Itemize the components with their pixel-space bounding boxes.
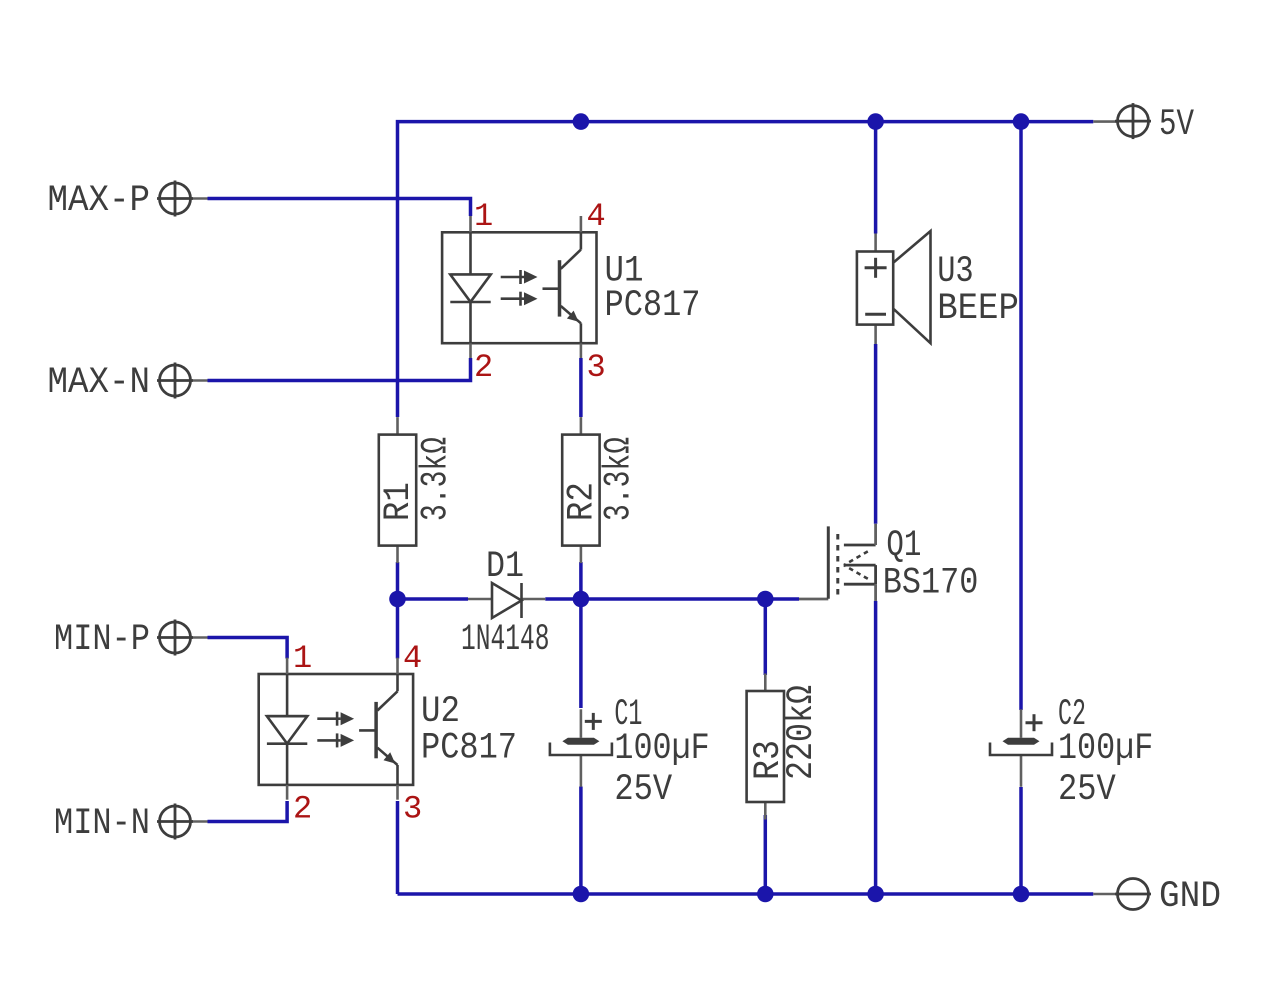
optocoupler U1 PC817 (442, 216, 596, 358)
svg-text:3: 3 (587, 349, 606, 386)
resistor R3 (747, 674, 784, 820)
svg-text:R2: R2 (561, 482, 603, 521)
junction node A right (757, 591, 774, 608)
wire MIN-P to U2 pin1 (208, 638, 288, 659)
junction node A left (389, 591, 406, 608)
svg-text:25V: 25V (614, 769, 672, 811)
port MAX-P (48, 180, 208, 222)
wire 5V top rail with left drop (398, 122, 1094, 417)
wire R1 bottom to node (396, 562, 400, 599)
wire C1 bottom to GND rail (579, 787, 583, 895)
junction GND rail at R3 column (757, 886, 774, 903)
svg-text:4: 4 (587, 198, 606, 235)
wire R3 bottom to GND rail (764, 815, 768, 894)
svg-text:MIN-P: MIN-P (54, 619, 150, 661)
port MAX-N (48, 362, 208, 404)
svg-text:220kΩ: 220kΩ (781, 685, 823, 780)
svg-text:BEEP: BEEP (937, 288, 1019, 330)
buzzer U3 BEEP (857, 231, 931, 344)
svg-text:MAX-N: MAX-N (48, 362, 151, 404)
svg-text:3: 3 (403, 791, 422, 828)
junction GND rail at C2 column (1013, 886, 1030, 903)
svg-text:PC817: PC817 (421, 728, 517, 770)
svg-text:5V: 5V (1159, 104, 1194, 146)
wire MAX-N to U1 pin2 (208, 358, 471, 381)
svg-text:1N4148: 1N4148 (461, 619, 550, 661)
svg-text:Q1: Q1 (886, 525, 921, 567)
junction node A middle (573, 591, 590, 608)
svg-text:D1: D1 (486, 546, 524, 588)
svg-text:MIN-N: MIN-N (54, 803, 150, 845)
plus sign C2 (1026, 714, 1043, 731)
port MIN-N (54, 803, 208, 845)
port 5V (1093, 103, 1194, 146)
svg-text:100µF: 100µF (1058, 728, 1153, 770)
wire 5V rail to U3 top (874, 122, 878, 234)
svg-text:1: 1 (293, 640, 312, 677)
svg-text:BS170: BS170 (883, 563, 979, 605)
port GND (1093, 876, 1221, 918)
wire node to U2 pin4 (396, 599, 400, 659)
wire R2 bottom to node (579, 562, 583, 599)
diode D1 1N4148 (468, 583, 545, 618)
junction GND rail at Q1 column (867, 886, 884, 903)
wire node to D1 anode (398, 597, 469, 601)
resistor R2 (562, 417, 599, 563)
wire GND bottom rail (398, 892, 1094, 896)
wire C2 bottom to GND rail (1019, 787, 1023, 894)
wire 5V rail to C2 top (1019, 122, 1023, 710)
svg-text:1: 1 (474, 198, 493, 235)
svg-text:3.3kΩ: 3.3kΩ (415, 437, 457, 521)
svg-text:2: 2 (293, 791, 312, 828)
wire U2 pin3 to GND rail corner (396, 801, 400, 894)
junction top rail at U1 pin4 column (573, 113, 590, 130)
junction top rail at C2 column (1013, 113, 1030, 130)
wire node to R3 top (764, 599, 768, 675)
wire U3 bottom to Q1 drain (874, 344, 878, 524)
svg-text:4: 4 (403, 640, 422, 677)
resistor R1 (379, 417, 416, 563)
capacitor C1 (550, 709, 612, 787)
optocoupler U2 PC817 (259, 658, 413, 800)
svg-text:3.3kΩ: 3.3kΩ (599, 437, 641, 521)
wire node to C1 top (579, 599, 583, 708)
capacitor C2 (990, 709, 1052, 787)
junction top rail at U3 column (867, 113, 884, 130)
wire MAX-P to U1 pin1 (208, 199, 471, 217)
svg-text:PC817: PC817 (605, 285, 701, 327)
wire Q1 source to GND rail (874, 601, 878, 894)
svg-text:MAX-P: MAX-P (48, 180, 151, 222)
junction GND rail at C1 column (573, 886, 590, 903)
svg-text:R1: R1 (378, 482, 420, 521)
wire D1 cathode to Q1 gate (545, 597, 799, 601)
plus sign C1 (585, 713, 602, 730)
transistor Q1 BS170 MOSFET (799, 524, 876, 601)
wire U1 pin3 to R2 top (579, 358, 583, 417)
port MIN-P (54, 619, 208, 661)
svg-text:25V: 25V (1058, 769, 1116, 811)
wire MIN-N to U2 pin2 (208, 801, 288, 822)
svg-text:U3: U3 (937, 251, 974, 293)
svg-text:GND: GND (1159, 876, 1221, 918)
svg-text:2: 2 (474, 349, 493, 386)
svg-text:100µF: 100µF (614, 728, 709, 770)
